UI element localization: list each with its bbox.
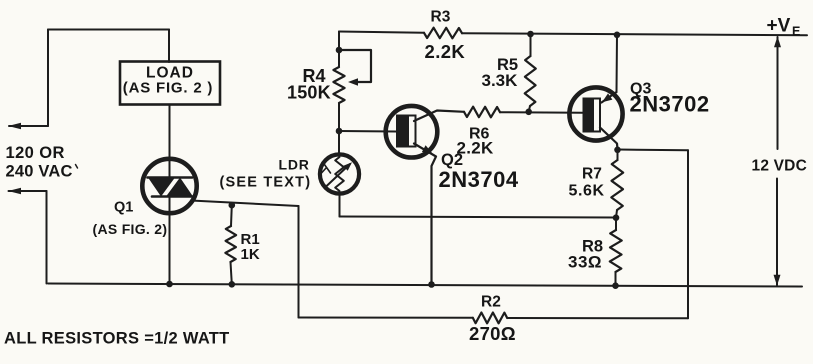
- svg-text:2.2K: 2.2K: [425, 41, 466, 62]
- svg-text:ALL RESISTORS =1/2 WATT: ALL RESISTORS =1/2 WATT: [4, 330, 230, 348]
- svg-text:(SEE TEXT): (SEE TEXT): [220, 175, 312, 191]
- svg-text:E: E: [792, 25, 800, 39]
- svg-text:LDR: LDR: [279, 157, 310, 173]
- svg-text:+V: +V: [767, 16, 791, 37]
- svg-text:2N3702: 2N3702: [630, 92, 710, 117]
- svg-text:(AS FIG. 2): (AS FIG. 2): [93, 221, 168, 237]
- svg-text:270Ω: 270Ω: [469, 323, 516, 344]
- svg-text:33Ω: 33Ω: [568, 253, 602, 272]
- svg-text:3.3K: 3.3K: [482, 71, 519, 90]
- svg-text:R7: R7: [582, 166, 602, 183]
- svg-text:(AS FIG. 2 ): (AS FIG. 2 ): [123, 80, 213, 97]
- svg-text:240 VAC: 240 VAC: [6, 163, 73, 181]
- svg-text:5.6K: 5.6K: [569, 183, 605, 200]
- svg-text:150K: 150K: [287, 83, 331, 103]
- svg-text:Q1: Q1: [114, 200, 133, 216]
- svg-text:2.2K: 2.2K: [457, 139, 495, 158]
- svg-text:1K: 1K: [241, 246, 260, 263]
- svg-text:120 OR: 120 OR: [6, 144, 65, 162]
- svg-text:2N3704: 2N3704: [439, 167, 519, 192]
- svg-text:R2: R2: [481, 294, 501, 311]
- svg-text:12 VDC: 12 VDC: [752, 158, 807, 175]
- svg-text:R3: R3: [431, 9, 451, 26]
